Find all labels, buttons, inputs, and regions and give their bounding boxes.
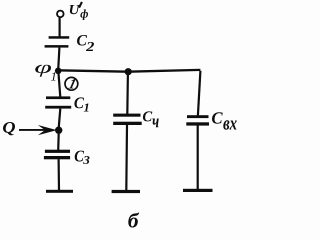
node Q (55, 127, 62, 134)
node 1 circled (65, 77, 78, 90)
label Cvx (212, 112, 237, 129)
wire (57, 134, 60, 151)
ground rail left (46, 190, 73, 193)
label Q (3, 122, 15, 135)
wire (198, 71, 201, 116)
wire (197, 126, 199, 190)
capacitor C1 (45, 96, 71, 108)
ground rail middle (112, 190, 140, 193)
wire (57, 159, 60, 190)
label phi1 (35, 65, 55, 81)
wire (57, 70, 200, 72)
label C1 (74, 97, 88, 111)
capacitor C4 (113, 114, 142, 125)
ground rail right (183, 189, 213, 192)
label C2 (77, 35, 94, 51)
capacitor Cvx (186, 115, 209, 125)
terminal U'f (57, 11, 64, 18)
wire (58, 72, 60, 97)
capacitor C2 (45, 36, 70, 47)
capacitor C3 (44, 150, 70, 160)
wire (58, 48, 59, 70)
wire (59, 109, 61, 128)
wire (58, 18, 60, 38)
junction node (125, 68, 132, 75)
caption b (128, 213, 139, 228)
label C4 (143, 111, 159, 127)
wire (126, 74, 129, 115)
node phi1 (55, 68, 62, 75)
label U'f (70, 2, 88, 20)
label C3 (75, 151, 90, 164)
wire (125, 125, 128, 191)
arrow input Q (19, 125, 57, 135)
